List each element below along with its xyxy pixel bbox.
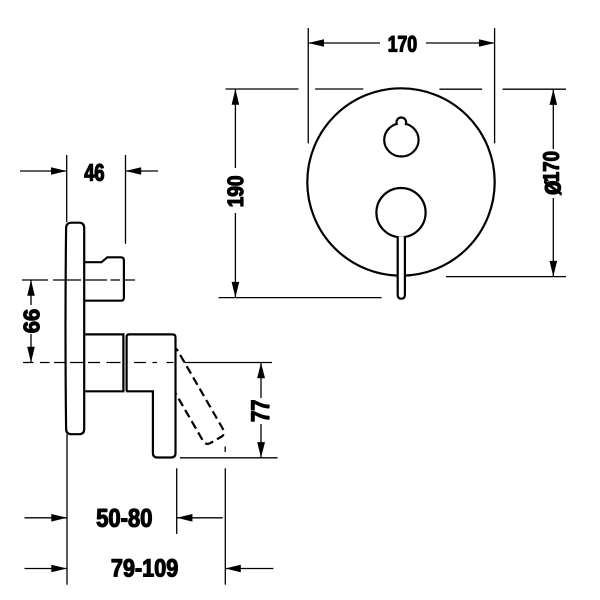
arrow 46 left [51, 167, 67, 175]
dim line 77 [260, 363, 262, 399]
label 50-80 [97, 509, 152, 527]
arrow 66 bottom [27, 347, 35, 363]
arrow 190 top [232, 89, 240, 105]
thermostat knob (side) [85, 257, 124, 300]
arrow 66 top [27, 280, 35, 296]
ext line ø170 top [439, 88, 482, 90]
diverter button bump [397, 117, 407, 127]
arrow 79-109 right [225, 565, 241, 573]
ext line top tangent (190 dim) [226, 88, 299, 90]
label 46 [85, 164, 104, 181]
label 66 [24, 310, 40, 333]
diverter button circle [384, 123, 418, 156]
arrow ø170 top [550, 89, 558, 105]
dim line 46 [20, 170, 67, 172]
handle hub + grip (side, L-shape) [126, 334, 175, 457]
dim line 66 [30, 280, 32, 305]
label 190 [227, 176, 243, 206]
ext line 46 left [66, 155, 68, 222]
arrow ø170 bottom [550, 261, 558, 277]
arrow 170 right [479, 39, 495, 47]
dim line 170 [308, 42, 380, 44]
dim line 190 [234, 89, 236, 168]
plate circle ø170 [307, 88, 494, 275]
ext line dashed lever tip [224, 447, 226, 453]
label 77 [251, 401, 269, 422]
dim line ø170 [552, 89, 554, 149]
arrow 79-109 left [51, 565, 67, 573]
arrow 77 top [257, 363, 265, 379]
lever handle (front) [398, 236, 405, 298]
label ø170 [543, 152, 561, 195]
ext line ø170 bottom [446, 276, 566, 278]
handle base cylinder (side) [85, 334, 123, 391]
ext line 46 right [125, 155, 127, 244]
handle hub circle [376, 188, 425, 237]
label 79-109 [112, 559, 178, 577]
ext line 170 right [494, 28, 496, 143]
arrow 77 bottom [257, 442, 265, 458]
dim line 50-80 [25, 517, 68, 519]
ext line bottom (lever tip, 190 dim) [219, 297, 382, 299]
ext line grip right [176, 468, 178, 534]
arrow 190 bottom [232, 282, 240, 298]
label 170 [389, 36, 417, 52]
dim line 79-109 [25, 568, 68, 570]
handle centerline [23, 362, 272, 364]
knob centerline [22, 279, 135, 281]
arrow 50-80 left [51, 514, 67, 522]
arrow 170 left [308, 39, 324, 47]
ext line 170 left [307, 28, 309, 143]
ext line bottom left (plate) [66, 434, 68, 585]
dashed lever (alternate position) [155, 346, 226, 445]
ext line 77 bottom [180, 457, 278, 459]
wall plate (side) [66, 223, 85, 435]
arrow 50-80 right [177, 514, 193, 522]
arrow 46 right [126, 167, 142, 175]
